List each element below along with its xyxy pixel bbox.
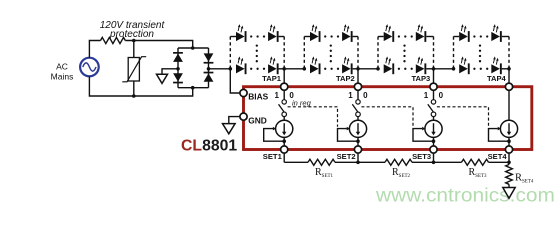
wire source to SET1	[283, 137, 285, 146]
wire group 2 right edge	[357, 37, 359, 69]
diode D2	[173, 73, 183, 81]
ground bridge	[157, 74, 168, 83]
pin TAP2	[354, 83, 361, 90]
wire TAP2 drop	[357, 69, 359, 83]
node varistor top	[132, 39, 136, 43]
wire source to SET2	[357, 137, 359, 146]
node SET2 bus	[356, 161, 360, 165]
resistor RSET2	[385, 159, 412, 165]
LED D1D	[268, 64, 277, 73]
wire TAP1 drop	[283, 69, 285, 83]
node feedback 3	[432, 139, 436, 143]
bridge rectifier frame	[178, 47, 209, 49]
LED D2D	[342, 64, 351, 73]
wire switch to source 1	[283, 117, 285, 121]
wire group 4 right edge	[508, 37, 510, 69]
node feedback 2	[356, 139, 360, 143]
wire switch to source 3	[433, 117, 435, 121]
svg-text:1: 1	[348, 91, 353, 100]
resistor RSET4	[506, 165, 513, 185]
diode D3	[204, 53, 214, 61]
current source I2	[349, 120, 366, 137]
pin SET4	[505, 146, 512, 153]
wire bridge output	[209, 68, 231, 70]
svg-text:SET1: SET1	[263, 152, 283, 161]
wire bottom row right group 2	[353, 68, 358, 70]
LED group 1 top row wire	[230, 36, 236, 38]
wire between group 1 and 2	[284, 68, 304, 70]
series dots bottom group 1	[250, 68, 252, 70]
LED group 2 top row wire	[304, 36, 310, 38]
wire TAP3 to switch	[433, 90, 435, 99]
wire cascade dashed 1	[288, 107, 338, 127]
node group 4 left	[452, 67, 456, 71]
svg-text:TAP1: TAP1	[262, 74, 282, 83]
series dots bottom group 4	[473, 68, 475, 70]
svg-text:RSET2: RSET2	[392, 167, 411, 179]
wire AC bottom	[89, 76, 192, 96]
LED D3D	[416, 64, 425, 73]
wire cascade dashed 3	[437, 107, 489, 127]
LED D3B	[416, 32, 425, 41]
wire group 2 left edge	[303, 37, 305, 69]
series dots top group 2	[324, 35, 326, 37]
svg-text:Mains: Mains	[51, 72, 74, 82]
wire bottom row right group 1	[279, 68, 285, 70]
series dots bottom group 2	[324, 68, 326, 70]
wire AC top	[89, 41, 100, 58]
LED D4A	[459, 32, 468, 41]
svg-text:in reg: in reg	[292, 98, 312, 107]
wire SET bus	[283, 153, 285, 162]
wire group 1 left edge	[229, 37, 231, 69]
wire BIAS feed	[230, 69, 243, 93]
wire source to SET3	[433, 137, 435, 146]
svg-text:CL8801: CL8801	[181, 137, 237, 154]
wire bus 2-3	[412, 161, 462, 163]
series dots bottom group 3	[398, 68, 400, 70]
svg-text:1: 1	[274, 91, 279, 100]
wire top row right group 3	[426, 36, 433, 38]
LED D1C	[236, 64, 245, 73]
node TAP4 junction	[507, 67, 511, 71]
wire TAP4 to source	[508, 90, 510, 120]
svg-text:BIAS: BIAS	[248, 91, 268, 101]
wire group 3 left edge	[377, 37, 379, 69]
node bridge minus	[176, 67, 180, 71]
diode D1	[173, 52, 183, 54]
LED D1A	[236, 32, 245, 41]
current source I1	[276, 120, 293, 137]
wire source to SET4	[508, 137, 510, 146]
pin BIAS	[240, 89, 247, 96]
parallel dots group 3	[403, 44, 405, 46]
LED group 4 top row wire	[454, 36, 460, 38]
wire top row right group 2	[353, 36, 358, 38]
svg-text:TAP4: TAP4	[487, 74, 507, 83]
wire between group 2 and 3	[358, 68, 378, 70]
switch S3	[431, 100, 435, 104]
wire to ground RSET4	[508, 184, 510, 187]
wire feedback loop 1	[264, 129, 285, 142]
resistor RSET1	[308, 159, 335, 165]
node TAP1 junction	[282, 67, 286, 71]
LED D4D	[491, 64, 500, 73]
ground RSET4	[503, 188, 515, 199]
LED D3A	[384, 32, 393, 41]
wire feedback loop 2	[338, 129, 359, 142]
diode D4	[204, 72, 214, 74]
LED D3C	[384, 64, 393, 73]
pin SET3	[430, 146, 437, 153]
series dots top group 3	[398, 35, 400, 37]
node group 1 left	[229, 67, 233, 71]
AC source V1	[80, 58, 99, 77]
resistor RSET3	[462, 159, 489, 165]
varistor RV1	[133, 41, 135, 58]
svg-text:GND: GND	[248, 116, 267, 126]
wire TAP4 drop	[508, 69, 510, 83]
parallel dots group 1	[256, 44, 258, 46]
pin TAP4	[505, 83, 512, 90]
wire bridge to ground	[162, 69, 178, 74]
switch S1	[282, 100, 286, 104]
wire SET4 down	[508, 162, 510, 164]
svg-text:0: 0	[439, 91, 444, 100]
wire group 1 right edge	[283, 37, 285, 69]
svg-text:SET2: SET2	[337, 152, 356, 161]
node bridge plus	[207, 67, 211, 71]
wire TAP3 drop	[433, 69, 435, 83]
wire bus 3-4	[489, 161, 510, 163]
wire TAP1 to switch	[283, 90, 285, 99]
wire between group 3 and 4	[434, 68, 454, 70]
pin SET2	[354, 146, 361, 153]
svg-text:0: 0	[363, 91, 368, 100]
LED D1B	[268, 32, 277, 41]
wire group 3 right edge	[433, 37, 435, 69]
LED group 3 top row wire	[378, 36, 384, 38]
ground GND pin	[223, 124, 236, 134]
IC CL8801 body	[244, 87, 532, 150]
resistor fuse	[101, 37, 126, 43]
parallel dots group 2	[330, 44, 332, 46]
node group 3 left	[376, 67, 380, 71]
node SET4 bus	[507, 161, 511, 165]
node SET3 bus	[432, 161, 436, 165]
svg-text:AC: AC	[56, 62, 68, 72]
svg-text:www.cntronics.com: www.cntronics.com	[375, 185, 555, 206]
wire cascade dashed 2	[361, 107, 413, 127]
svg-text:TAP2: TAP2	[336, 74, 355, 83]
svg-text:1: 1	[424, 91, 429, 100]
pin SET1	[281, 146, 288, 153]
pin GND	[240, 113, 247, 120]
svg-text:RSET1: RSET1	[315, 167, 334, 179]
svg-text:TAP3: TAP3	[411, 74, 430, 83]
LED D4C	[459, 64, 468, 73]
svg-text:SET4: SET4	[488, 152, 508, 161]
wire bus 1-2	[335, 161, 385, 163]
wire switch to source 2	[357, 117, 359, 121]
parallel dots group 4	[479, 44, 481, 46]
node varistor bottom	[132, 94, 136, 98]
wire top row right group 1	[279, 36, 285, 38]
current source I3	[425, 120, 442, 137]
node feedback 1	[282, 139, 286, 143]
wire top row right group 4	[502, 36, 509, 38]
wire GND	[229, 117, 240, 124]
wire top to bridge	[125, 41, 192, 49]
node TAP3 junction	[432, 67, 436, 71]
svg-text:RSET3: RSET3	[469, 167, 488, 179]
node TAP2 junction	[356, 67, 360, 71]
LED D4B	[491, 32, 500, 41]
wire bottom row right group 4	[502, 68, 509, 70]
wire TAP2 to switch	[357, 90, 359, 99]
wire bottom row right group 3	[426, 68, 433, 70]
node bridge top	[191, 46, 195, 50]
svg-text:RSET4: RSET4	[515, 173, 534, 185]
pin TAP3	[430, 83, 437, 90]
LED D2C	[310, 64, 319, 73]
LED D2A	[310, 32, 319, 41]
wire feedback loop 3	[413, 129, 434, 142]
wire feedback loop 4	[489, 129, 510, 142]
pin TAP1	[281, 83, 288, 90]
series dots top group 4	[473, 35, 475, 37]
current source I4	[500, 120, 517, 137]
node bridge bottom	[191, 86, 195, 90]
wire group 4 left edge	[453, 37, 455, 69]
node group 2 left	[303, 67, 307, 71]
LED D2B	[342, 32, 351, 41]
node feedback 4	[507, 139, 511, 143]
series dots top group 1	[250, 35, 252, 37]
switch S2	[356, 100, 360, 104]
svg-text:SET3: SET3	[412, 152, 431, 161]
